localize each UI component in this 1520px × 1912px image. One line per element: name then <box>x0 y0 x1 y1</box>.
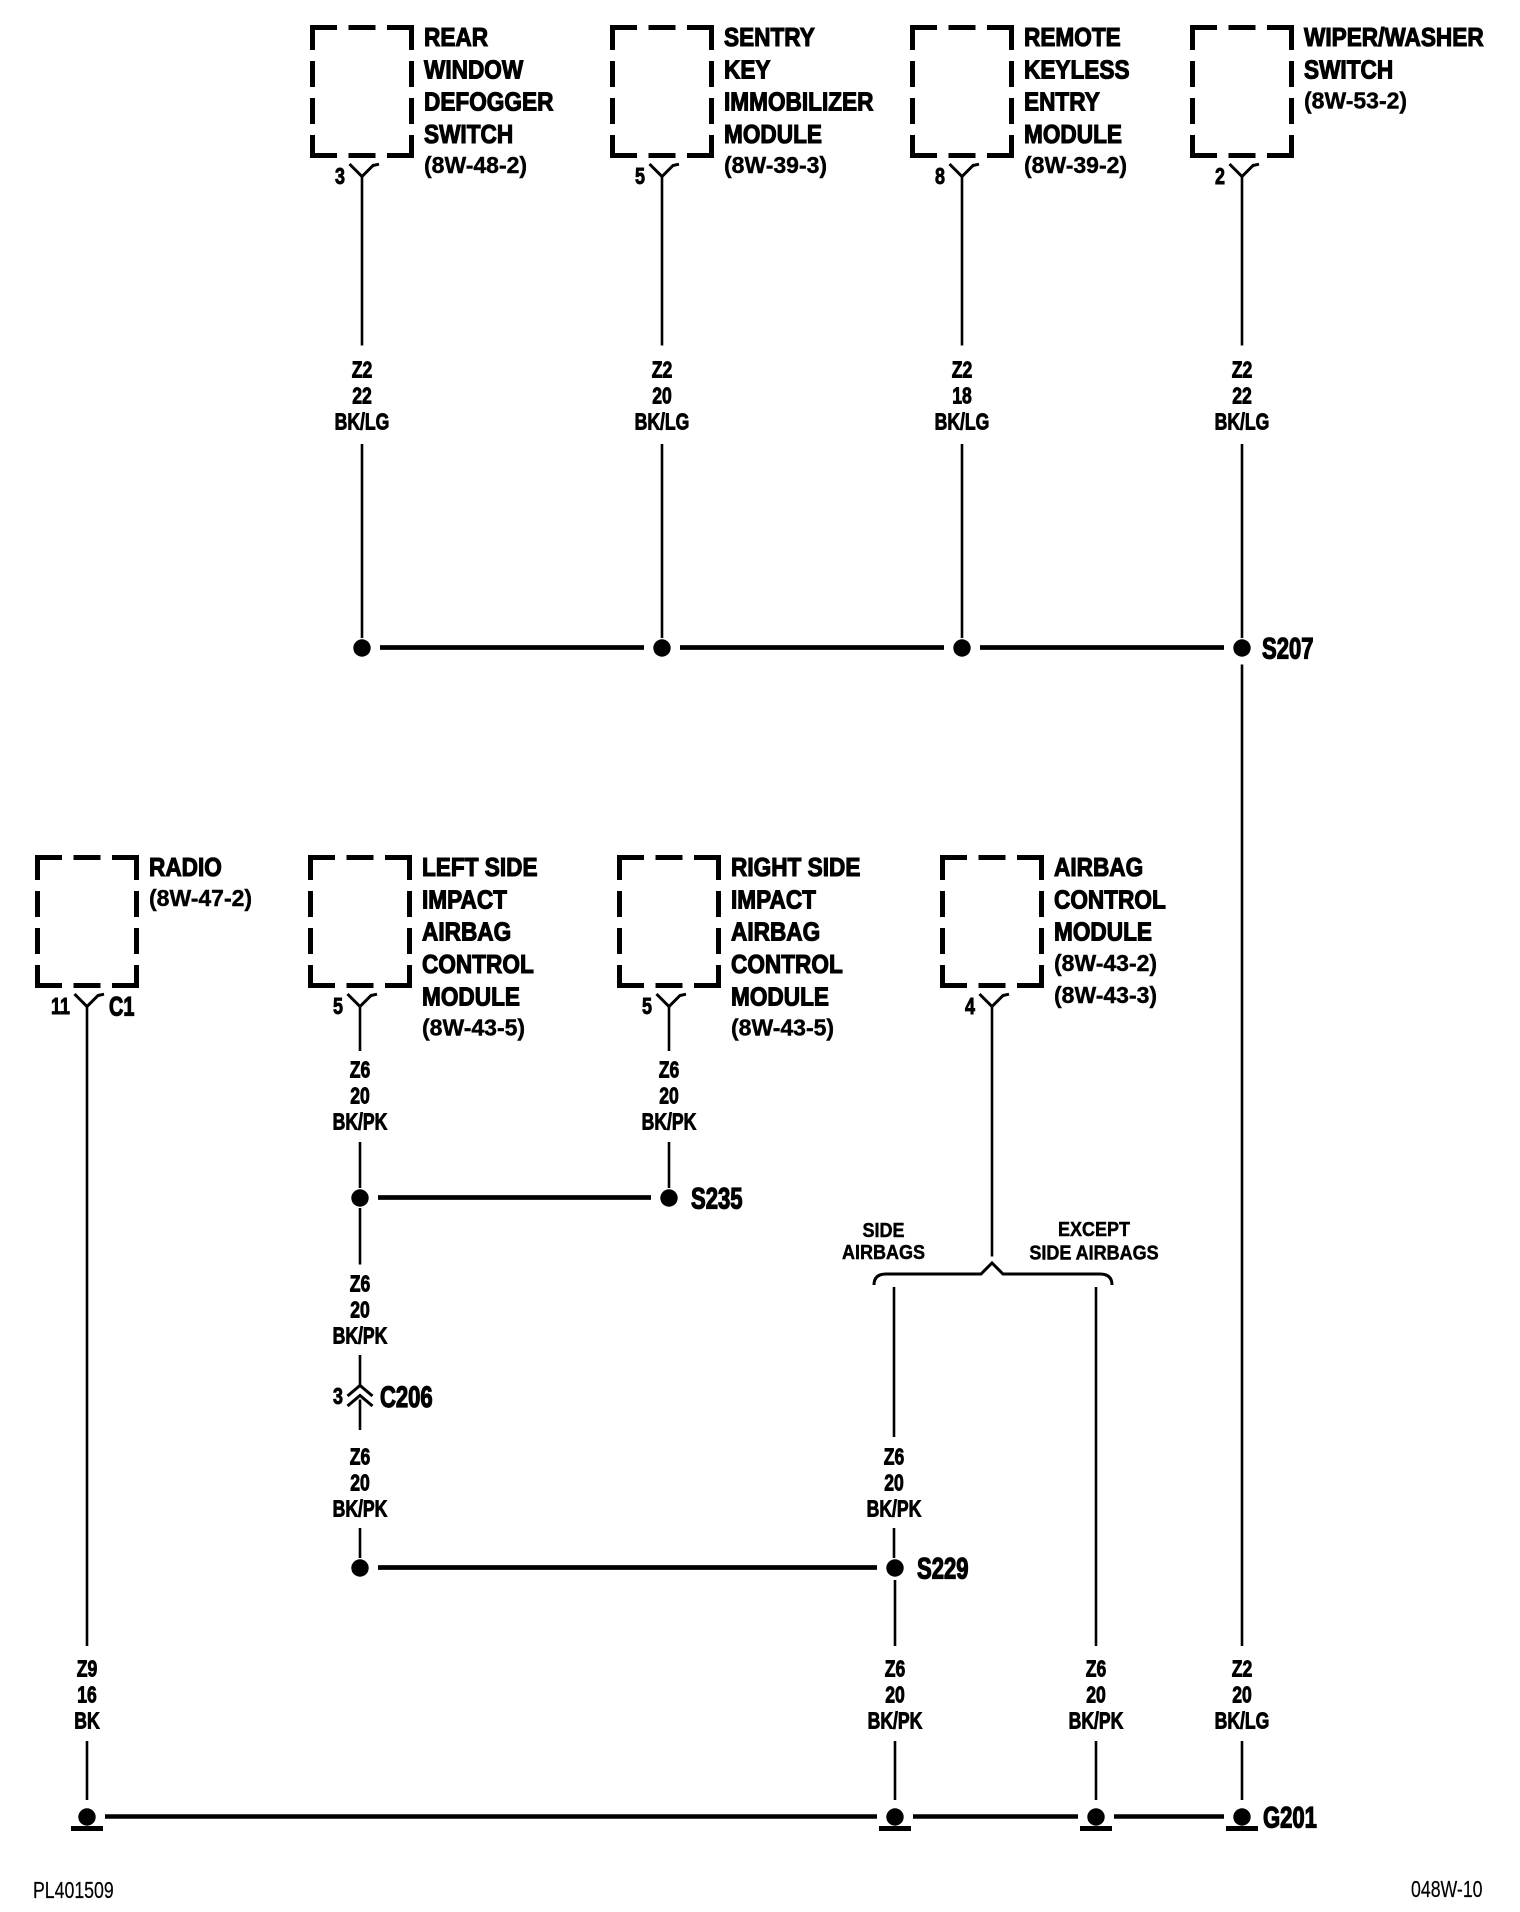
svg-text:SIDE AIRBAGS: SIDE AIRBAGS <box>1029 1243 1158 1265</box>
svg-text:SENTRY: SENTRY <box>724 24 815 53</box>
svg-text:20: 20 <box>350 1297 370 1323</box>
svg-text:16: 16 <box>77 1682 97 1708</box>
svg-text:C206: C206 <box>380 1380 433 1414</box>
svg-text:BK/LG: BK/LG <box>1215 1708 1270 1734</box>
svg-text:(8W-39-3): (8W-39-3) <box>724 152 827 178</box>
svg-text:Z2: Z2 <box>1232 1656 1253 1682</box>
svg-text:S207: S207 <box>1262 631 1313 665</box>
svg-text:20: 20 <box>652 383 672 409</box>
svg-text:CONTROL: CONTROL <box>422 951 534 980</box>
svg-text:BK/PK: BK/PK <box>642 1109 697 1135</box>
svg-text:MODULE: MODULE <box>1054 918 1152 947</box>
svg-text:Z2: Z2 <box>1232 357 1253 383</box>
svg-text:(8W-43-5): (8W-43-5) <box>422 1014 525 1040</box>
svg-text:MODULE: MODULE <box>1024 121 1122 150</box>
svg-text:22: 22 <box>352 383 372 409</box>
svg-text:20: 20 <box>885 1682 905 1708</box>
svg-text:AIRBAG: AIRBAG <box>422 918 511 947</box>
svg-text:2: 2 <box>1215 164 1225 190</box>
svg-text:11: 11 <box>51 994 70 1020</box>
svg-text:WIPER/WASHER: WIPER/WASHER <box>1304 24 1484 53</box>
svg-text:AIRBAGS: AIRBAGS <box>842 1242 925 1264</box>
svg-text:IMMOBILIZER: IMMOBILIZER <box>724 88 874 117</box>
svg-text:WINDOW: WINDOW <box>424 56 523 85</box>
svg-text:LEFT SIDE: LEFT SIDE <box>422 854 538 883</box>
svg-text:(8W-53-2): (8W-53-2) <box>1304 88 1407 114</box>
svg-text:BK/LG: BK/LG <box>635 409 690 435</box>
svg-text:ENTRY: ENTRY <box>1024 88 1100 117</box>
svg-text:BK/LG: BK/LG <box>335 409 390 435</box>
svg-text:BK/PK: BK/PK <box>333 1109 388 1135</box>
svg-text:048W-10: 048W-10 <box>1411 1877 1483 1903</box>
svg-text:20: 20 <box>350 1470 370 1496</box>
svg-text:MODULE: MODULE <box>724 121 822 150</box>
svg-text:BK/PK: BK/PK <box>333 1323 388 1349</box>
svg-text:BK/PK: BK/PK <box>1069 1708 1124 1734</box>
svg-text:20: 20 <box>659 1083 679 1109</box>
svg-text:20: 20 <box>350 1083 370 1109</box>
svg-text:IMPACT: IMPACT <box>731 886 816 915</box>
svg-text:20: 20 <box>1232 1682 1252 1708</box>
svg-text:KEYLESS: KEYLESS <box>1024 56 1130 85</box>
svg-text:RIGHT SIDE: RIGHT SIDE <box>731 854 860 883</box>
svg-text:(8W-48-2): (8W-48-2) <box>424 152 527 178</box>
svg-text:PL401509: PL401509 <box>33 1878 114 1904</box>
svg-text:Z2: Z2 <box>652 357 673 383</box>
svg-text:5: 5 <box>333 994 343 1020</box>
svg-text:22: 22 <box>1232 383 1252 409</box>
svg-text:Z2: Z2 <box>352 357 373 383</box>
svg-text:4: 4 <box>965 994 975 1020</box>
svg-text:SIDE: SIDE <box>863 1220 905 1242</box>
svg-text:Z2: Z2 <box>952 357 973 383</box>
svg-text:5: 5 <box>635 164 645 190</box>
svg-text:BK/LG: BK/LG <box>1215 409 1270 435</box>
svg-text:BK/PK: BK/PK <box>867 1496 922 1522</box>
svg-text:Z6: Z6 <box>1086 1656 1107 1682</box>
svg-text:REMOTE: REMOTE <box>1024 24 1121 53</box>
svg-text:KEY: KEY <box>724 56 770 85</box>
svg-text:EXCEPT: EXCEPT <box>1058 1219 1130 1241</box>
svg-text:18: 18 <box>952 383 972 409</box>
svg-text:RADIO: RADIO <box>149 854 222 883</box>
svg-text:Z6: Z6 <box>350 1444 371 1470</box>
svg-text:CONTROL: CONTROL <box>1054 886 1166 915</box>
svg-text:AIRBAG: AIRBAG <box>731 918 820 947</box>
svg-text:CONTROL: CONTROL <box>731 951 843 980</box>
svg-text:Z9: Z9 <box>77 1656 98 1682</box>
svg-text:Z6: Z6 <box>659 1057 680 1083</box>
svg-text:3: 3 <box>333 1384 343 1410</box>
svg-text:(8W-43-5): (8W-43-5) <box>731 1014 834 1040</box>
svg-text:MODULE: MODULE <box>731 983 829 1012</box>
svg-text:3: 3 <box>335 164 345 190</box>
svg-text:DEFOGGER: DEFOGGER <box>424 88 554 117</box>
svg-text:BK/PK: BK/PK <box>333 1496 388 1522</box>
svg-text:BK/PK: BK/PK <box>868 1708 923 1734</box>
svg-text:REAR: REAR <box>424 24 488 53</box>
svg-text:Z6: Z6 <box>884 1444 905 1470</box>
svg-text:BK/LG: BK/LG <box>935 409 990 435</box>
svg-text:IMPACT: IMPACT <box>422 886 507 915</box>
svg-text:20: 20 <box>1086 1682 1106 1708</box>
svg-text:(8W-39-2): (8W-39-2) <box>1024 152 1127 178</box>
svg-text:MODULE: MODULE <box>422 983 520 1012</box>
svg-text:BK: BK <box>74 1708 100 1734</box>
svg-text:8: 8 <box>935 164 945 190</box>
svg-text:20: 20 <box>884 1470 904 1496</box>
svg-text:(8W-43-2): (8W-43-2) <box>1054 950 1157 976</box>
svg-text:AIRBAG: AIRBAG <box>1054 854 1143 883</box>
svg-text:Z6: Z6 <box>350 1271 371 1297</box>
svg-text:SWITCH: SWITCH <box>424 121 513 150</box>
svg-text:C1: C1 <box>109 993 134 1023</box>
svg-text:G201: G201 <box>1263 1800 1317 1834</box>
svg-text:(8W-43-3): (8W-43-3) <box>1054 982 1157 1008</box>
svg-text:S229: S229 <box>917 1551 968 1585</box>
svg-text:S235: S235 <box>691 1181 742 1215</box>
svg-text:(8W-47-2): (8W-47-2) <box>149 885 252 911</box>
svg-text:SWITCH: SWITCH <box>1304 56 1393 85</box>
svg-text:Z6: Z6 <box>885 1656 906 1682</box>
svg-text:Z6: Z6 <box>350 1057 371 1083</box>
svg-text:5: 5 <box>642 994 652 1020</box>
